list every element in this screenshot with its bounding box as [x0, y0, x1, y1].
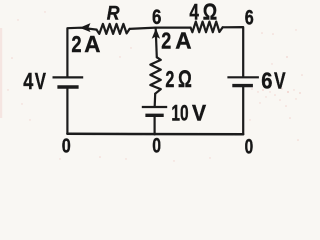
- arrow up 2A on middle branch: [152, 29, 159, 38]
- svg-text:2: 2: [71, 31, 81, 57]
- resistor 4ohm zigzag: [191, 22, 223, 33]
- svg-text:Ω: Ω: [203, 0, 217, 24]
- wire below 10V battery to bottom: [154, 117, 156, 135]
- svg-text:2: 2: [161, 27, 171, 53]
- scan artifacts: faint pink streak left edge: [0, 28, 2, 118]
- svg-text:Ω: Ω: [178, 66, 192, 93]
- wire left vertical below 4V battery: [66, 88, 68, 133]
- wire mid branch arrow shaft from top junction down: [156, 29, 157, 58]
- battery 6V plates: [227, 77, 259, 85]
- svg-text:R: R: [107, 3, 120, 25]
- svg-text:V: V: [274, 67, 286, 93]
- wire right vertical below 6V battery to bottom-right corner: [242, 87, 244, 134]
- wire 2ohm to 10V battery: [154, 94, 157, 106]
- scan speckles: [7, 11, 303, 161]
- svg-text:A: A: [175, 27, 191, 53]
- wire top-left segment with corner: [67, 28, 96, 77]
- svg-text:2: 2: [165, 66, 174, 92]
- svg-text:A: A: [84, 31, 100, 57]
- svg-text:4: 4: [189, 0, 199, 24]
- wire 4ohm to top-right corner and right vertical down to 6V battery: [223, 27, 244, 76]
- resistor R zigzag: [97, 24, 130, 34]
- svg-text:4: 4: [23, 68, 33, 94]
- battery 10V plates: [142, 107, 167, 115]
- wire top-mid segment (R right side to mid junction to 4ohm): [130, 28, 191, 29]
- svg-text:0: 0: [62, 134, 71, 157]
- svg-text:10: 10: [171, 100, 188, 125]
- arrow left 2A on top wire: [81, 24, 90, 32]
- svg-text:0: 0: [245, 136, 254, 159]
- paper background: [0, 0, 306, 165]
- svg-text:6: 6: [152, 6, 162, 29]
- svg-text:V: V: [192, 100, 207, 125]
- svg-text:0: 0: [152, 135, 161, 158]
- wire bottom horizontal: [67, 133, 243, 136]
- svg-text:V: V: [35, 68, 46, 94]
- svg-text:6: 6: [245, 7, 254, 30]
- resistor 2ohm vertical zigzag: [150, 57, 161, 93]
- battery 4V plates: [53, 77, 84, 87]
